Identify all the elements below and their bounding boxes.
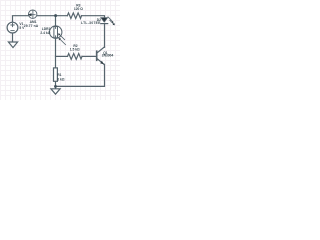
svg-text:1.5 kΩ: 1.5 kΩ	[70, 48, 80, 52]
resistor R3 (zigzag)	[67, 13, 81, 19]
node junction (top, above LDR)	[54, 14, 57, 17]
ammeter AM1	[28, 10, 37, 18]
svg-text:120 Ω: 120 Ω	[74, 7, 83, 11]
wire	[82, 16, 105, 18]
photoresistor LDR1	[50, 26, 66, 45]
wire	[12, 33, 14, 42]
wire	[56, 64, 105, 86]
resistor R1 (box)	[54, 68, 58, 81]
wire	[36, 15, 67, 17]
wire	[55, 39, 57, 68]
ground (below R1)	[51, 89, 60, 94]
node junction (bottom, below R1)	[54, 85, 57, 88]
LED D2	[101, 17, 115, 25]
voltage source V1	[7, 22, 18, 33]
resistor R2 (zigzag)	[68, 54, 83, 60]
wire	[13, 16, 30, 23]
svg-text:29.77 nA: 29.77 nA	[24, 24, 39, 28]
wire	[55, 81, 57, 88]
ground (below V1)	[8, 42, 17, 48]
wire	[56, 55, 68, 57]
transistor Q1	[97, 47, 105, 65]
svg-text:2N3904: 2N3904	[102, 54, 114, 58]
wire	[55, 16, 57, 26]
wire	[104, 24, 106, 47]
wire	[82, 55, 96, 57]
svg-text:LTL-307EE: LTL-307EE	[81, 21, 101, 25]
svg-text:6 kΩ: 6 kΩ	[57, 78, 65, 82]
svg-text:2.4 kΩ: 2.4 kΩ	[40, 31, 50, 35]
svg-text:R1: R1	[57, 73, 61, 77]
